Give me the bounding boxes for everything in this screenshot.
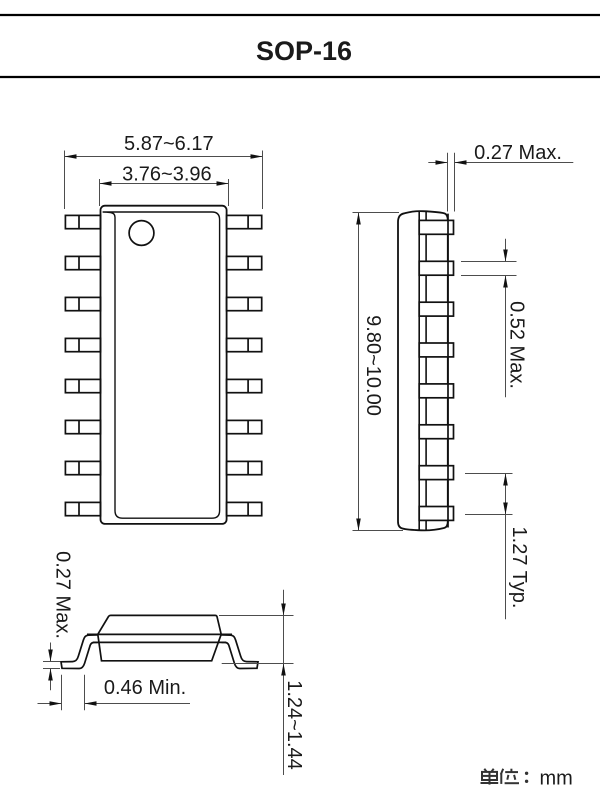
- side view body right edge over pins: [447, 214, 449, 528]
- top view left pin 4: [65, 338, 100, 351]
- top view left pin 6: [65, 420, 100, 433]
- profile lead plane lower line: [93, 641, 226, 643]
- unit label: character 单: [481, 769, 499, 785]
- profile right lead: [222, 635, 259, 669]
- dimension 1.24~1.44 line with outside arrows: [281, 590, 286, 775]
- dimension 0.52 Max line with outside arrows: [503, 239, 508, 398]
- top view right pin 11: [227, 420, 262, 433]
- svg-text:0.46 Min.: 0.46 Min.: [104, 677, 186, 699]
- svg-text:0.27 Max.: 0.27 Max.: [474, 142, 562, 164]
- title bar bottom rule: [0, 76, 600, 78]
- top view left pin 3: [65, 297, 100, 310]
- svg-text:mm: mm: [540, 767, 573, 789]
- profile left lead: [61, 635, 98, 669]
- top view left pin 1: [65, 215, 100, 228]
- svg-text:0.52 Max.: 0.52 Max.: [506, 301, 528, 389]
- svg-text:SOP-16: SOP-16: [256, 36, 352, 66]
- dimension 5.87~6.17 line with arrows: [65, 154, 263, 159]
- dimension 9.80~10.00 line with arrows: [356, 213, 361, 531]
- dimension 1.24~1.44 stub lines: [219, 616, 294, 664]
- top view left pin 5: [65, 379, 100, 392]
- top view right pin 15: [227, 256, 262, 269]
- svg-text:1.24~1.44: 1.24~1.44: [283, 680, 305, 770]
- top view package body inner outline: [103, 212, 220, 518]
- profile view package body outline: [98, 615, 221, 660]
- unit label: fullwidth colon: [525, 772, 528, 783]
- unit label: character 位: [501, 769, 519, 784]
- side view body parting line A: [418, 211, 420, 530]
- top view right pin 13: [227, 338, 262, 351]
- dimension 0.27 Max (left) stub lines: [43, 662, 60, 669]
- top view right pin 9: [227, 502, 262, 515]
- side view pin 3: [419, 302, 453, 316]
- dimension 0.27 Max line with outside arrows (top): [428, 160, 573, 165]
- top view pin-1 index circle: [129, 221, 154, 246]
- dimension 5.87~6.17 extension lines: [65, 151, 263, 210]
- top view left pin 8: [65, 502, 100, 515]
- side view pin 4: [419, 343, 453, 357]
- top view package body outer outline: [101, 206, 227, 524]
- profile lead plane upper line: [87, 633, 232, 635]
- top view left pin 2: [65, 256, 100, 269]
- title bar top rule: [0, 14, 600, 16]
- top view right pin 16: [227, 215, 262, 228]
- top view left pin 7: [65, 461, 100, 474]
- dimension 0.46 Min extension lines: [62, 675, 85, 711]
- top view right pin 12: [227, 379, 262, 392]
- dimension 1.27 Typ line with inside arrows: [503, 474, 508, 620]
- svg-text:3.76~3.96: 3.76~3.96: [122, 164, 212, 186]
- side view pin 8: [419, 507, 453, 521]
- svg-text:0.27 Max.: 0.27 Max.: [52, 551, 74, 639]
- side view pin 5: [419, 384, 453, 398]
- top view right pin 14: [227, 297, 262, 310]
- side view pin 2: [419, 261, 453, 275]
- svg-text:1.27 Typ.: 1.27 Typ.: [508, 527, 530, 609]
- svg-text:5.87~6.17: 5.87~6.17: [124, 133, 214, 155]
- side view pin 7: [419, 466, 453, 480]
- dimension 0.52 Max stub lines: [461, 262, 517, 276]
- dimension 3.76~3.96 line with arrows: [100, 181, 229, 186]
- dimension 3.76~3.96 extension lines: [100, 179, 229, 206]
- side view body parting line B: [425, 211, 427, 530]
- top view right pin 10: [227, 461, 262, 474]
- side view package body outline: [398, 211, 448, 530]
- dimension 0.27 Max extension lines (top): [448, 153, 455, 212]
- dimension 0.27 Max (left) line with outside arrows: [48, 643, 53, 691]
- side view pin 6: [419, 425, 453, 439]
- dimension 0.46 Min line with outside arrows: [38, 701, 191, 706]
- side view pin 1: [419, 220, 453, 234]
- dimension 9.80~10.00 extension lines: [353, 213, 404, 531]
- dimension 1.27 Typ stub lines: [465, 474, 513, 515]
- svg-text:9.80~10.00: 9.80~10.00: [362, 315, 384, 416]
